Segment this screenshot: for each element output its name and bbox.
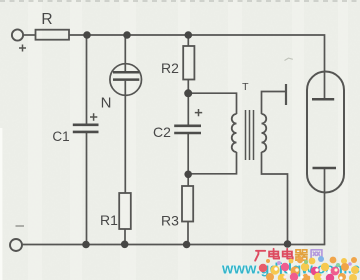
svg-text:R2: R2 xyxy=(161,60,179,76)
svg-text:R1: R1 xyxy=(100,212,118,228)
svg-text:R: R xyxy=(41,11,52,28)
svg-text:C1: C1 xyxy=(52,129,69,144)
svg-text:T: T xyxy=(242,81,249,93)
svg-text:R3: R3 xyxy=(161,213,179,229)
svg-text:C2: C2 xyxy=(153,124,171,140)
svg-text:N: N xyxy=(101,95,112,112)
